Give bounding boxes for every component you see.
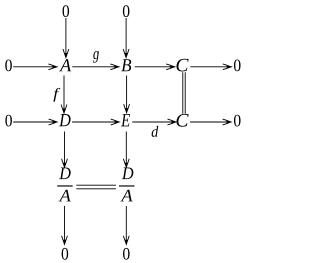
arrow C to 0 row2 (190, 119, 231, 125)
arrow B to E (124, 76, 130, 113)
arrow C to 0 row1 (190, 64, 231, 70)
arrow A to D (f) (61, 76, 67, 114)
arrow D to D/A (62, 132, 68, 168)
arrow E to D/A (123, 132, 129, 168)
node A (59, 59, 71, 71)
node 0 top-left-col (63, 5, 70, 17)
node C row1 (177, 59, 189, 72)
arrow D/A to 0 left (62, 206, 68, 244)
node 0 row2-left (5, 115, 12, 127)
arrow D/A to 0 right (123, 206, 129, 244)
node D (59, 114, 71, 126)
fraction D/A left denominator A (59, 190, 71, 202)
arrow B to C (135, 64, 175, 70)
node 0 row1-right (234, 60, 241, 72)
label g (93, 51, 99, 63)
equality D/A = D/A (horizontal double line) (76, 185, 116, 189)
node C row2 (177, 114, 189, 127)
label d (152, 126, 159, 137)
node 0 bottom-left-col (62, 248, 69, 260)
arrow 0 to D (13, 119, 57, 125)
node 0 row2-right (234, 115, 241, 127)
fraction D/A right denominator A (120, 190, 132, 202)
fraction D/A left numerator D (59, 167, 71, 179)
node 0 top-right-col (123, 5, 130, 17)
node E (121, 114, 130, 126)
node 0 bottom-right-col (123, 248, 130, 260)
arrow 0 to B vertical (123, 18, 129, 58)
fraction D/A right numerator D (122, 167, 134, 179)
arrow E to C (d) (132, 119, 176, 125)
equality C = C (vertical double line) (183, 72, 185, 113)
node B (121, 59, 131, 71)
node 0 row1-left (5, 60, 12, 72)
arrow D to E (72, 119, 119, 125)
label f (53, 88, 60, 102)
fraction D/A left : fraction bar (57, 185, 72, 186)
arrow 0 to A (13, 64, 57, 70)
fraction D/A right : fraction bar (119, 185, 135, 186)
arrow A to B (g) (72, 64, 119, 70)
arrow 0 to A vertical (63, 18, 69, 58)
